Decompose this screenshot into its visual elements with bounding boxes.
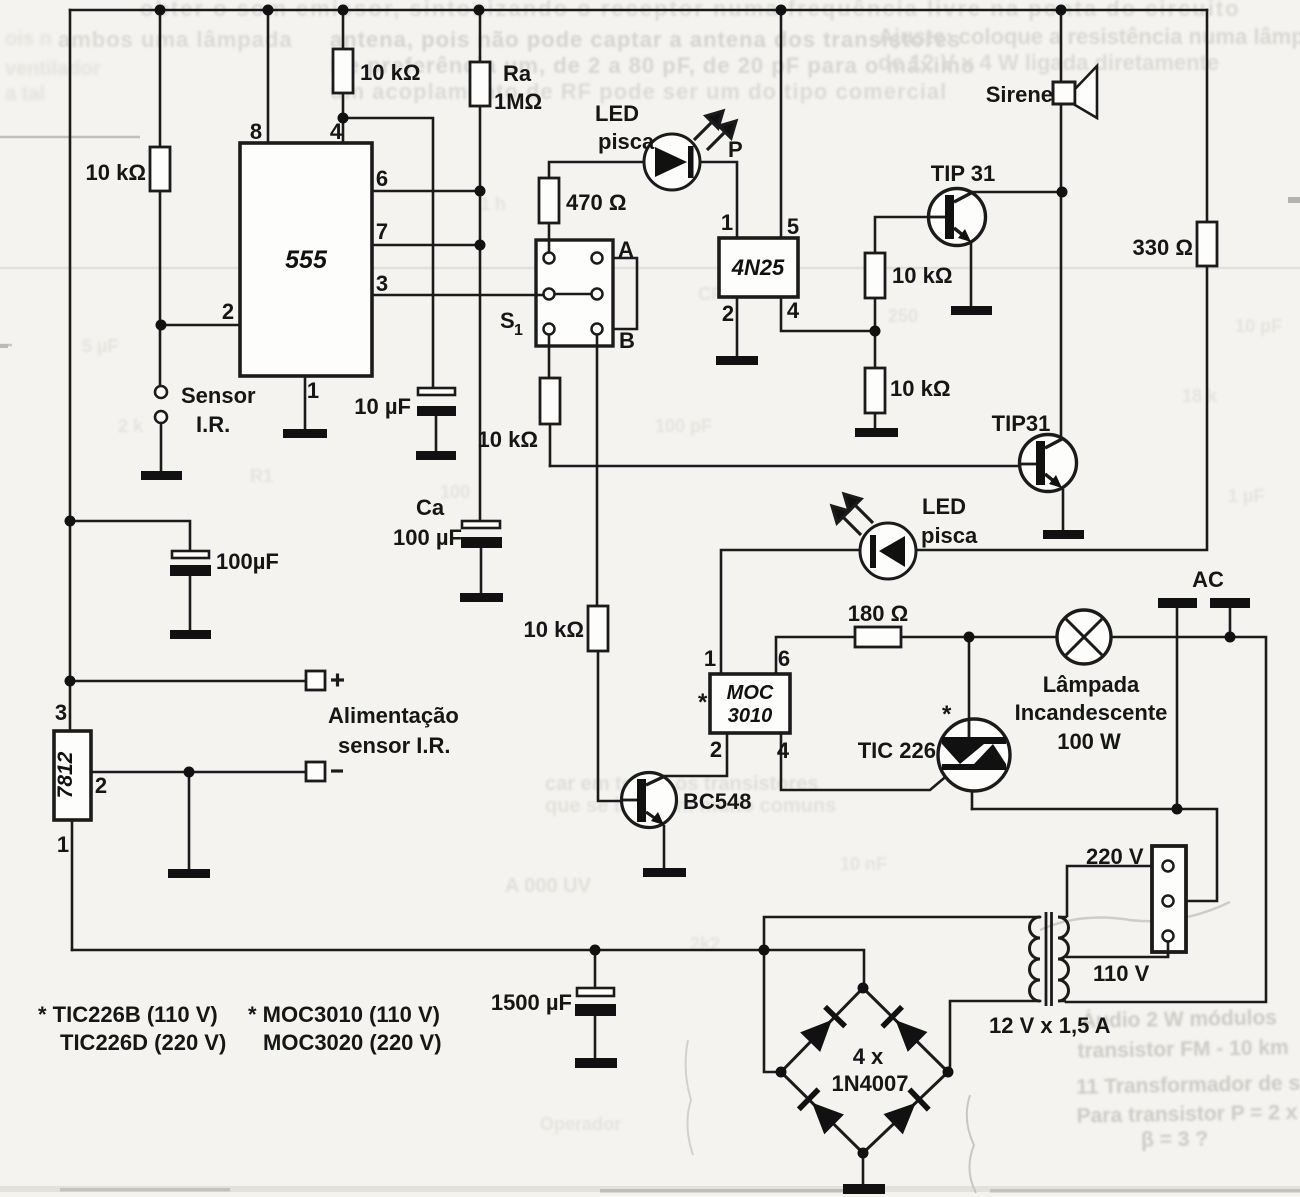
svg-text:*: *	[698, 689, 708, 716]
svg-text:3: 3	[55, 700, 67, 725]
svg-text:* TIC226B (110 V): * TIC226B (110 V)	[38, 1002, 218, 1027]
svg-text:110 V: 110 V	[1093, 961, 1150, 986]
svg-text:555: 555	[285, 246, 328, 274]
svg-text:transistor FM - 10 km: transistor FM - 10 km	[1077, 1036, 1289, 1063]
svg-text:LED: LED	[922, 494, 966, 519]
svg-text:4: 4	[330, 119, 343, 144]
svg-text:TIC226D (220 V): TIC226D (220 V)	[60, 1030, 226, 1055]
svg-text:4: 4	[787, 298, 800, 323]
svg-text:R1: R1	[250, 466, 273, 486]
svg-text:Para transistor P = 2 x 1: Para transistor P = 2 x 1	[1076, 1101, 1300, 1128]
svg-text:6: 6	[376, 166, 388, 191]
svg-text:1 µF: 1 µF	[1228, 486, 1264, 506]
svg-text:1: 1	[704, 646, 716, 671]
svg-text:ois n: ois n	[5, 28, 52, 50]
svg-text:4 x: 4 x	[853, 1044, 884, 1069]
svg-text:4: 4	[777, 738, 790, 763]
svg-text:TIP 31: TIP 31	[931, 161, 995, 186]
svg-text:2: 2	[222, 299, 234, 324]
svg-text:4N25: 4N25	[731, 255, 785, 280]
svg-text:pisca: pisca	[598, 129, 655, 154]
svg-text:1MΩ: 1MΩ	[494, 89, 542, 114]
svg-text:Alimentação: Alimentação	[328, 703, 459, 728]
svg-text:de 12 V x 4 W ligada diretamen: de 12 V x 4 W ligada diretamente	[878, 50, 1219, 75]
svg-text:10 pF: 10 pF	[1235, 316, 1282, 336]
svg-text:Sensor: Sensor	[181, 383, 256, 408]
svg-text:1: 1	[721, 210, 733, 235]
svg-text:Ca: Ca	[416, 495, 445, 520]
svg-text:6: 6	[778, 646, 790, 671]
svg-text:pisca: pisca	[921, 523, 978, 548]
svg-text:3: 3	[376, 271, 388, 296]
svg-text:1: 1	[514, 322, 523, 339]
svg-text:sensor I.R.: sensor I.R.	[338, 733, 450, 758]
svg-text:Ajuste: coloque a resistência: Ajuste: coloque a resistência numa lâmpa…	[878, 24, 1300, 49]
svg-text:220 V: 220 V	[1086, 844, 1144, 869]
svg-text:Ra: Ra	[503, 61, 532, 86]
svg-text:1N4007: 1N4007	[831, 1071, 908, 1096]
svg-text:5: 5	[787, 214, 799, 239]
svg-text:Sirene: Sirene	[986, 82, 1053, 107]
svg-text:B: B	[619, 328, 635, 353]
svg-text:1500 µF: 1500 µF	[491, 990, 572, 1015]
svg-text:a tal: a tal	[5, 83, 45, 105]
svg-text:ventilador: ventilador	[5, 58, 101, 80]
svg-text:10 kΩ: 10 kΩ	[890, 376, 950, 401]
svg-text:1 h: 1 h	[480, 194, 506, 214]
svg-text:MOC: MOC	[727, 682, 774, 704]
svg-text:470 Ω: 470 Ω	[566, 190, 626, 215]
svg-text:250: 250	[888, 306, 918, 326]
svg-text:100 pF: 100 pF	[655, 416, 712, 436]
svg-text:*: *	[942, 701, 952, 728]
svg-text:A: A	[618, 237, 634, 262]
svg-text:antena, pois não pode captar a: antena, pois não pode captar a antena do…	[330, 27, 961, 52]
svg-text:180 Ω: 180 Ω	[848, 601, 908, 626]
svg-text:100: 100	[440, 482, 470, 502]
svg-text:* MOC3010 (110 V): * MOC3010 (110 V)	[248, 1002, 440, 1027]
svg-text:1: 1	[307, 378, 319, 403]
svg-text:7: 7	[376, 219, 388, 244]
svg-text:β = 3 ?: β = 3 ?	[1141, 1128, 1208, 1152]
svg-text:Lâmpada: Lâmpada	[1043, 672, 1140, 697]
svg-text:100 µF: 100 µF	[393, 525, 462, 550]
svg-text:TIC 226: TIC 226	[858, 738, 936, 763]
svg-text:10 µF: 10 µF	[354, 394, 411, 419]
svg-text:8: 8	[250, 119, 262, 144]
svg-text:S: S	[500, 308, 515, 333]
svg-text:Operador: Operador	[540, 1114, 621, 1134]
svg-text:2: 2	[722, 301, 734, 326]
svg-text:10 kΩ: 10 kΩ	[478, 427, 538, 452]
svg-text:10 kΩ: 10 kΩ	[360, 60, 420, 85]
svg-text:10 nF: 10 nF	[840, 854, 887, 874]
svg-text:12 V x 1,5 A: 12 V x 1,5 A	[989, 1013, 1111, 1038]
svg-text:5 µF: 5 µF	[82, 336, 118, 356]
svg-text:Incandescente: Incandescente	[1015, 700, 1168, 725]
svg-text:2: 2	[710, 737, 722, 762]
svg-text:AC: AC	[1192, 567, 1224, 592]
svg-text:I.R.: I.R.	[196, 412, 230, 437]
svg-text:2 k: 2 k	[118, 416, 144, 436]
svg-text:P: P	[728, 137, 743, 162]
svg-text:MOC3020 (220 V): MOC3020 (220 V)	[263, 1030, 442, 1055]
svg-text:1: 1	[57, 832, 69, 857]
svg-text:LED: LED	[595, 101, 639, 126]
svg-text:3010: 3010	[728, 705, 773, 727]
svg-text:BC548: BC548	[683, 789, 751, 814]
svg-text:11 Transformador de saída: 11 Transformador de saída	[1076, 1071, 1300, 1099]
svg-text:7812: 7812	[54, 751, 77, 798]
svg-text:A 000 UV: A 000 UV	[505, 875, 592, 897]
svg-text:100 W: 100 W	[1057, 729, 1121, 754]
svg-text:10 kΩ: 10 kΩ	[892, 263, 952, 288]
svg-text:100µF: 100µF	[216, 549, 279, 574]
svg-text:TIP31: TIP31	[992, 411, 1051, 436]
svg-text:ambos uma lâmpada: ambos uma lâmpada	[58, 27, 293, 52]
svg-text:2: 2	[95, 773, 107, 798]
svg-text:330 Ω: 330 Ω	[1133, 235, 1193, 260]
svg-text:10 kΩ: 10 kΩ	[86, 160, 146, 185]
svg-text:10 kΩ: 10 kΩ	[524, 617, 584, 642]
svg-text:18 k: 18 k	[1182, 386, 1218, 406]
